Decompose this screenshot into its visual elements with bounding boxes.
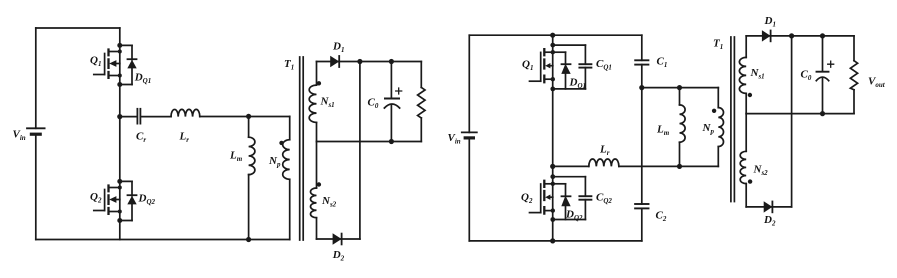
node midpoint left bridge: [117, 114, 122, 119]
node bridge top right: [550, 33, 555, 38]
wire left vertical lower: [35, 134, 37, 239]
winding Np right primary: [712, 88, 724, 167]
svg-text:DQ2: DQ2: [565, 209, 583, 223]
wire secondary top rail left: [317, 61, 422, 63]
battery Vin right: [462, 132, 477, 138]
inductor Lr left: [171, 109, 200, 116]
battery Vin left: [27, 128, 45, 134]
inductor Lr right: [553, 159, 619, 166]
svg-text:Lm: Lm: [656, 124, 670, 138]
wire output top rail right: [746, 35, 854, 37]
capacitor C0 left: [384, 62, 401, 142]
svg-text:T1: T1: [284, 58, 294, 72]
svg-text:Ns2: Ns2: [753, 164, 769, 178]
winding Ns2 left secondary: [311, 142, 322, 240]
node Lm bottom right: [677, 164, 682, 169]
node tank top tee: [639, 85, 644, 90]
diode D1 right: [762, 30, 771, 41]
svg-text:Vin: Vin: [448, 132, 461, 146]
svg-text:T1: T1: [713, 38, 723, 52]
svg-text:DQ1: DQ1: [569, 77, 587, 91]
inductor Lm left: [249, 116, 255, 239]
diode D2 right: [764, 201, 773, 212]
wire D2 return vertical right: [791, 36, 793, 207]
svg-text:Ns2: Ns2: [321, 195, 337, 209]
diode DQ1 right: [550, 43, 570, 92]
node C0 top right: [820, 33, 825, 38]
svg-text:Q1: Q1: [522, 59, 533, 73]
wire Lr to Np: [200, 116, 290, 118]
svg-text:Vout: Vout: [868, 76, 886, 90]
svg-text:Q1: Q1: [90, 55, 101, 69]
svg-text:Q2: Q2: [90, 191, 102, 205]
winding Ns1 left secondary: [309, 62, 321, 142]
capacitor CQ1 right: [553, 45, 592, 89]
wire D2 return vertical left: [359, 62, 361, 240]
capacitor C2 right: [635, 204, 648, 241]
svg-text:DQ1: DQ1: [134, 72, 152, 86]
diode D1 left: [330, 56, 339, 67]
transistor Q2 right: [530, 181, 553, 214]
resistor load left: [418, 62, 425, 142]
svg-text:C1: C1: [657, 56, 668, 70]
transistor Q2 left: [94, 186, 120, 214]
inductor Lm right: [680, 88, 686, 167]
transistor Q1 left: [94, 50, 120, 78]
wire left vertical upper right: [468, 35, 470, 132]
wire midpoint to Cr: [120, 116, 137, 118]
capacitor C0 right: [816, 36, 833, 114]
wire left vertical upper: [35, 28, 37, 128]
svg-text:Cr: Cr: [136, 131, 146, 145]
svg-text:Lr: Lr: [179, 131, 190, 145]
node Lr junction right: [550, 164, 555, 169]
capacitor Cr: [137, 109, 171, 124]
wire center tap left: [317, 141, 422, 143]
capacitor CQ2 right: [553, 177, 592, 220]
winding Np left primary: [279, 116, 289, 239]
diode D2 left: [333, 233, 342, 244]
winding Ns1 right secondary: [739, 36, 752, 114]
svg-text:DQ2: DQ2: [138, 193, 156, 207]
svg-text:Vin: Vin: [13, 129, 26, 143]
svg-text:D1: D1: [764, 15, 776, 29]
wire center tap right: [746, 113, 854, 115]
wire tank top right: [642, 87, 719, 89]
wire top rail left: [36, 27, 120, 29]
transformer T1 core left: [300, 57, 304, 240]
svg-text:Np: Np: [702, 122, 715, 136]
wire output bottom right: [746, 206, 791, 208]
svg-text:D2: D2: [332, 249, 345, 263]
wire bridge rail left: [119, 28, 121, 240]
svg-text:Lm: Lm: [229, 150, 243, 164]
diode DQ2 right: [550, 174, 570, 222]
svg-text:CQ1: CQ1: [596, 58, 612, 72]
node Lm bottom: [246, 237, 251, 242]
svg-text:Ns1: Ns1: [320, 96, 335, 110]
svg-text:C2: C2: [656, 210, 667, 224]
svg-text:D2: D2: [763, 214, 776, 228]
node C0 bottom right: [820, 111, 825, 116]
capacitor C1 right: [635, 35, 648, 204]
svg-text:Ns1: Ns1: [750, 67, 765, 81]
node Lm top right: [677, 85, 682, 90]
svg-text:C0: C0: [368, 97, 379, 111]
wire bridge rail right: [552, 35, 554, 241]
diode DQ2 left: [117, 179, 136, 223]
wire bottom rail right: [469, 240, 642, 242]
svg-text:Lr: Lr: [599, 144, 610, 158]
svg-text:Np: Np: [268, 155, 281, 169]
node D2-return top: [357, 59, 362, 64]
svg-text:C0: C0: [801, 69, 812, 83]
wire secondary bottom left: [317, 238, 360, 240]
transistor Q1 right: [530, 49, 553, 82]
svg-text:CQ2: CQ2: [596, 192, 612, 206]
wire tank bottom right: [619, 165, 718, 167]
svg-text:D1: D1: [332, 41, 344, 55]
node D2-return top right: [789, 33, 794, 38]
wire top rail right: [469, 34, 642, 36]
node C0 bottom left: [389, 139, 394, 144]
node C0 top left: [389, 59, 394, 64]
diode DQ1 left: [117, 43, 136, 87]
svg-text:Q2: Q2: [521, 192, 533, 206]
winding Ns2 right secondary: [740, 114, 752, 207]
resistor load Vout right: [850, 36, 857, 114]
node bridge bottom right: [550, 238, 555, 243]
node Lm top: [246, 114, 251, 119]
wire bottom rail left: [36, 239, 290, 241]
wire left vertical lower right: [468, 138, 470, 241]
transformer T1 core right: [731, 37, 735, 202]
